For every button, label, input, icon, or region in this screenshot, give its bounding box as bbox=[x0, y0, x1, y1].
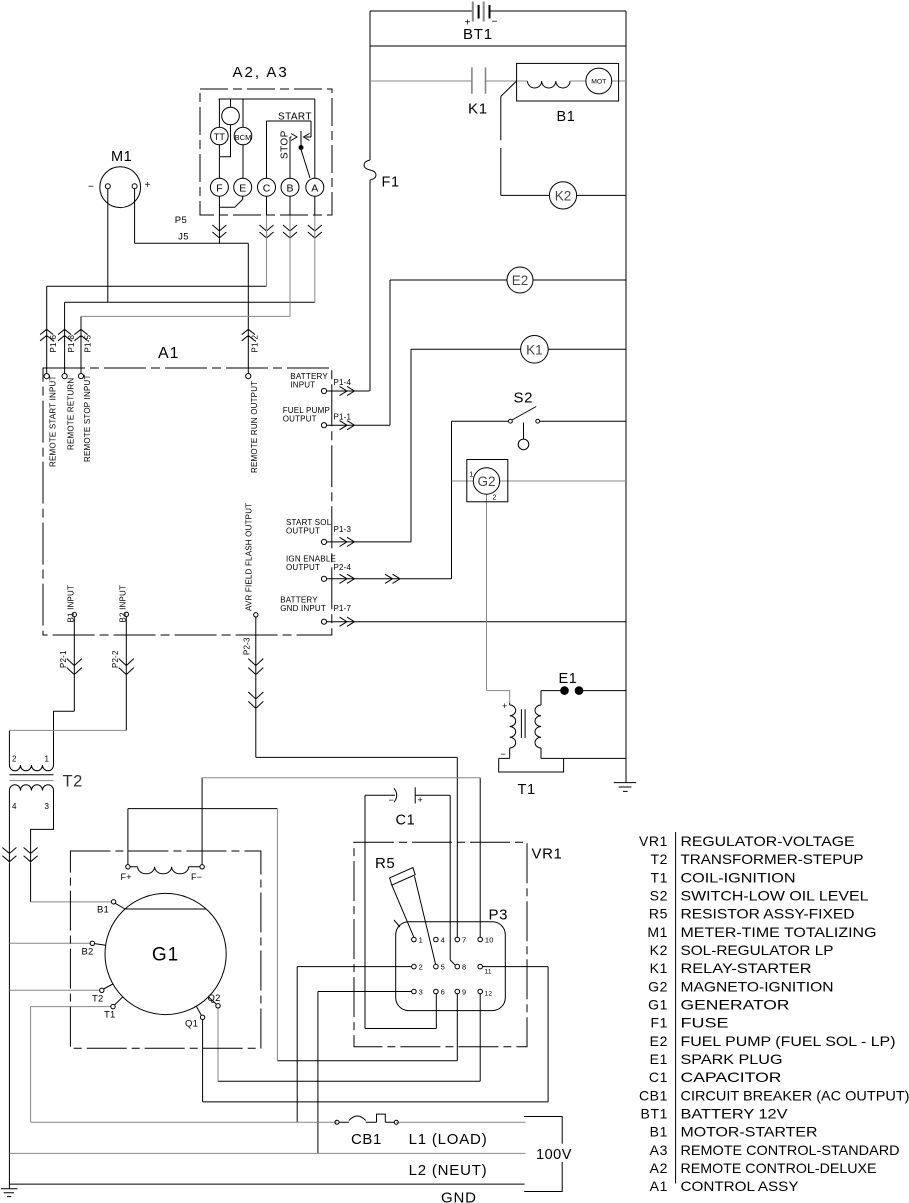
svg-text:F+: F+ bbox=[121, 872, 132, 882]
svg-text:FUEL PUMP (FUEL SOL - LP): FUEL PUMP (FUEL SOL - LP) bbox=[681, 1033, 896, 1049]
svg-text:COIL-IGNITION: COIL-IGNITION bbox=[681, 869, 796, 885]
svg-text:OUTPUT: OUTPUT bbox=[283, 414, 317, 423]
svg-text:+: + bbox=[502, 701, 507, 711]
svg-text:5: 5 bbox=[441, 963, 445, 972]
svg-text:K1: K1 bbox=[526, 342, 543, 357]
svg-text:BCM: BCM bbox=[235, 133, 252, 142]
svg-text:+: + bbox=[418, 795, 423, 805]
svg-text:B1: B1 bbox=[650, 1124, 668, 1140]
svg-text:T2: T2 bbox=[63, 773, 83, 791]
svg-text:P1-5: P1-5 bbox=[83, 334, 92, 352]
svg-text:TRANSFORMER-STEPUP: TRANSFORMER-STEPUP bbox=[681, 851, 864, 867]
svg-text:F: F bbox=[216, 183, 222, 195]
svg-text:OUTPUT: OUTPUT bbox=[286, 526, 320, 535]
svg-text:B2: B2 bbox=[82, 947, 94, 958]
svg-text:S2: S2 bbox=[514, 390, 534, 407]
svg-text:J5: J5 bbox=[178, 232, 189, 243]
svg-text:L2 (NEUT): L2 (NEUT) bbox=[409, 1162, 488, 1179]
svg-text:MAGNETO-IGNITION: MAGNETO-IGNITION bbox=[681, 978, 834, 994]
svg-text:M1: M1 bbox=[111, 149, 132, 165]
svg-text:3: 3 bbox=[45, 802, 50, 811]
svg-text:G1: G1 bbox=[152, 945, 179, 966]
svg-text:A1: A1 bbox=[158, 345, 180, 362]
svg-text:R5: R5 bbox=[375, 855, 395, 872]
svg-text:P5: P5 bbox=[175, 215, 187, 226]
svg-text:SOL-REGULATOR LP: SOL-REGULATOR LP bbox=[681, 942, 834, 958]
svg-text:7: 7 bbox=[462, 936, 466, 945]
svg-text:K2: K2 bbox=[650, 942, 668, 958]
svg-text:A: A bbox=[311, 183, 318, 195]
svg-text:CB1: CB1 bbox=[351, 1131, 382, 1148]
svg-text:P1-3: P1-3 bbox=[334, 525, 352, 534]
svg-text:K2: K2 bbox=[555, 188, 572, 203]
svg-text:8: 8 bbox=[462, 963, 466, 972]
svg-text:A2, A3: A2, A3 bbox=[233, 64, 289, 81]
svg-text:9: 9 bbox=[462, 988, 466, 997]
svg-text:REGULATOR-VOLTAGE: REGULATOR-VOLTAGE bbox=[681, 833, 855, 849]
svg-text:T1: T1 bbox=[650, 869, 668, 885]
svg-text:E1: E1 bbox=[559, 671, 578, 687]
svg-text:100V: 100V bbox=[536, 1147, 572, 1163]
svg-text:P2-2: P2-2 bbox=[111, 650, 120, 668]
svg-text:T2: T2 bbox=[650, 851, 668, 867]
svg-text:B1: B1 bbox=[97, 905, 109, 916]
svg-text:BT1: BT1 bbox=[641, 1106, 668, 1122]
svg-text:BT1: BT1 bbox=[463, 26, 493, 43]
svg-text:A3: A3 bbox=[650, 1142, 668, 1158]
svg-text:B: B bbox=[286, 183, 293, 195]
svg-text:METER-TIME TOTALIZING: METER-TIME TOTALIZING bbox=[681, 924, 877, 940]
svg-text:RESISTOR ASSY-FIXED: RESISTOR ASSY-FIXED bbox=[681, 906, 855, 922]
svg-text:P2-1: P2-1 bbox=[59, 650, 68, 668]
svg-text:CIRCUIT BREAKER (AC OUTPUT): CIRCUIT BREAKER (AC OUTPUT) bbox=[681, 1087, 909, 1103]
svg-text:R5: R5 bbox=[649, 906, 668, 922]
svg-text:CB1: CB1 bbox=[639, 1087, 668, 1103]
svg-text:P3: P3 bbox=[489, 907, 509, 924]
svg-text:S2: S2 bbox=[650, 888, 668, 904]
svg-text:VR1: VR1 bbox=[639, 833, 668, 849]
svg-text:1: 1 bbox=[45, 755, 50, 764]
svg-text:P2-4: P2-4 bbox=[334, 563, 352, 572]
svg-text:Q2: Q2 bbox=[208, 993, 221, 1004]
svg-text:REMOTE START INPUT: REMOTE START INPUT bbox=[49, 375, 58, 467]
svg-text:Q1: Q1 bbox=[185, 1019, 198, 1030]
svg-text:MOTOR-STARTER: MOTOR-STARTER bbox=[681, 1124, 818, 1140]
svg-text:REMOTE RETURN: REMOTE RETURN bbox=[67, 378, 76, 450]
svg-text:TT: TT bbox=[214, 132, 225, 142]
svg-text:−: − bbox=[88, 182, 94, 193]
svg-text:GND INPUT: GND INPUT bbox=[280, 604, 326, 613]
svg-text:E1: E1 bbox=[650, 1051, 668, 1067]
svg-text:T2: T2 bbox=[92, 994, 104, 1005]
svg-text:P1-6: P1-6 bbox=[49, 334, 58, 352]
svg-text:INPUT: INPUT bbox=[290, 380, 315, 389]
svg-text:C1: C1 bbox=[649, 1069, 668, 1085]
svg-text:F1: F1 bbox=[650, 1015, 668, 1031]
svg-text:E: E bbox=[239, 183, 246, 195]
svg-text:GND: GND bbox=[441, 1190, 477, 1203]
svg-text:3: 3 bbox=[419, 988, 423, 997]
svg-text:T1: T1 bbox=[518, 782, 536, 798]
svg-text:G2: G2 bbox=[477, 474, 495, 489]
svg-text:1: 1 bbox=[419, 936, 423, 945]
svg-text:F1: F1 bbox=[382, 175, 400, 191]
svg-text:C1: C1 bbox=[396, 813, 416, 829]
svg-text:12: 12 bbox=[485, 991, 493, 998]
svg-text:P1-1: P1-1 bbox=[334, 413, 352, 422]
svg-text:REMOTE CONTROL-DELUXE: REMOTE CONTROL-DELUXE bbox=[681, 1160, 877, 1176]
svg-text:REMOTE CONTROL-STANDARD: REMOTE CONTROL-STANDARD bbox=[681, 1142, 900, 1158]
svg-text:BATTERY 12V: BATTERY 12V bbox=[681, 1106, 789, 1122]
svg-text:CAPACITOR: CAPACITOR bbox=[681, 1069, 782, 1085]
svg-text:GENERATOR: GENERATOR bbox=[681, 997, 790, 1013]
svg-text:REMOTE RUN OUTPUT: REMOTE RUN OUTPUT bbox=[250, 381, 259, 473]
svg-text:B2 INPUT: B2 INPUT bbox=[118, 585, 127, 623]
svg-text:VR1: VR1 bbox=[532, 846, 563, 863]
svg-text:L1 (LOAD): L1 (LOAD) bbox=[409, 1131, 488, 1148]
svg-text:P1-4: P1-4 bbox=[334, 378, 352, 387]
svg-text:K1: K1 bbox=[468, 101, 488, 118]
svg-text:+: + bbox=[145, 180, 151, 191]
svg-text:E2: E2 bbox=[512, 273, 529, 288]
svg-text:−: − bbox=[389, 795, 394, 805]
svg-text:11: 11 bbox=[485, 969, 492, 976]
svg-text:E2: E2 bbox=[650, 1033, 668, 1049]
svg-text:RELAY-STARTER: RELAY-STARTER bbox=[681, 960, 812, 976]
svg-text:−: − bbox=[501, 749, 506, 759]
svg-text:FUSE: FUSE bbox=[681, 1015, 729, 1031]
svg-text:B1 INPUT: B1 INPUT bbox=[66, 585, 75, 623]
svg-text:P2-3: P2-3 bbox=[243, 637, 252, 655]
svg-text:P1-7: P1-7 bbox=[334, 604, 352, 613]
svg-text:STOP: STOP bbox=[280, 130, 291, 159]
svg-text:B1: B1 bbox=[557, 109, 576, 125]
svg-text:MOT: MOT bbox=[591, 79, 606, 86]
svg-text:T1: T1 bbox=[104, 1010, 116, 1021]
svg-text:10: 10 bbox=[485, 936, 494, 945]
svg-text:1: 1 bbox=[469, 472, 473, 479]
svg-text:SPARK PLUG: SPARK PLUG bbox=[681, 1051, 783, 1067]
svg-text:2: 2 bbox=[419, 963, 423, 972]
svg-text:F−: F− bbox=[191, 872, 202, 882]
svg-text:REMOTE STOP INPUT: REMOTE STOP INPUT bbox=[83, 374, 92, 462]
svg-text:C: C bbox=[263, 183, 271, 195]
svg-text:M1: M1 bbox=[647, 924, 668, 940]
svg-text:A1: A1 bbox=[650, 1178, 668, 1194]
svg-text:CONTROL ASSY: CONTROL ASSY bbox=[681, 1178, 800, 1194]
svg-text:4: 4 bbox=[441, 936, 445, 945]
svg-text:SWITCH-LOW OIL LEVEL: SWITCH-LOW OIL LEVEL bbox=[681, 888, 869, 904]
svg-text:2: 2 bbox=[493, 495, 497, 502]
svg-text:2: 2 bbox=[12, 755, 17, 764]
svg-text:START: START bbox=[278, 112, 312, 123]
svg-text:K1: K1 bbox=[650, 960, 668, 976]
svg-text:OUTPUT: OUTPUT bbox=[286, 563, 320, 572]
svg-text:P1-2: P1-2 bbox=[251, 334, 260, 352]
svg-text:P1-8: P1-8 bbox=[67, 334, 76, 352]
svg-text:4: 4 bbox=[12, 802, 17, 811]
svg-text:A2: A2 bbox=[650, 1160, 668, 1176]
svg-text:G2: G2 bbox=[648, 978, 668, 994]
svg-text:AVR FIELD FLASH OUTPUT: AVR FIELD FLASH OUTPUT bbox=[245, 503, 254, 611]
svg-text:G1: G1 bbox=[648, 997, 668, 1013]
svg-text:6: 6 bbox=[441, 988, 445, 997]
